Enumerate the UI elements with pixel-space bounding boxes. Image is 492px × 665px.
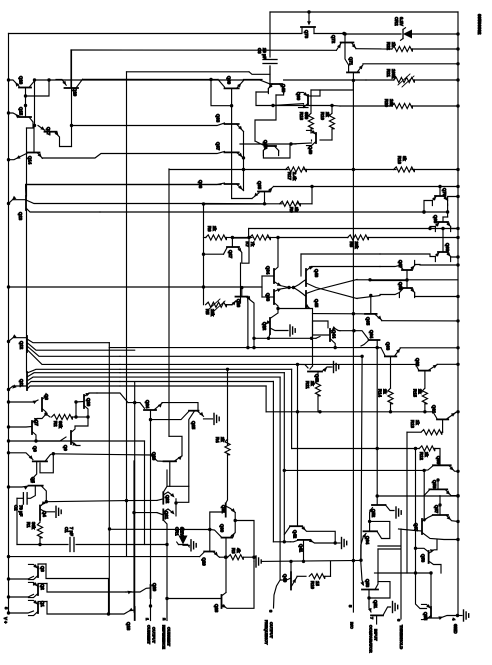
svg-text:Q40: Q40 xyxy=(283,574,288,583)
svg-text:Q29: Q29 xyxy=(202,558,207,567)
wire x108.5 Q3 to y544 xyxy=(108,579,110,615)
svg-text:6.2V: 6.2V xyxy=(399,17,404,26)
transistor Q7 xyxy=(31,421,33,434)
wire x415.5 down to y573 xyxy=(415,449,417,574)
transistor Q64 xyxy=(364,530,378,532)
svg-text:R16: R16 xyxy=(397,156,402,164)
bus row y386 to corner x266.1 xyxy=(120,385,266,387)
wire y80 right of Q48 xyxy=(284,79,366,81)
wire y470.4 base row xyxy=(284,469,424,471)
svg-text:Q30: Q30 xyxy=(220,524,225,533)
svg-text:20k: 20k xyxy=(354,242,359,250)
svg-text:CR2: CR2 xyxy=(394,17,399,26)
wire y529 row xyxy=(108,527,111,530)
resistor R5 10k xyxy=(206,302,227,307)
transistor Q56 xyxy=(433,514,448,516)
transistor Q21 xyxy=(162,509,164,520)
bus row y377.1 to corner x280.1 xyxy=(120,376,280,378)
transistor Q6 xyxy=(33,460,47,462)
transistor Q52 xyxy=(372,504,386,506)
wire Q26 double lines down to bus xyxy=(246,297,254,348)
svg-text:R21: R21 xyxy=(386,69,391,77)
wire y441 bottom row xyxy=(9,440,37,442)
svg-text:R9: R9 xyxy=(289,207,294,213)
svg-text:R20: R20 xyxy=(384,99,389,107)
wire y186.5 to rail xyxy=(274,186,459,188)
svg-text:Q48: Q48 xyxy=(281,84,286,93)
wire y169 left span xyxy=(169,169,244,171)
ground for Q4 xyxy=(55,506,57,517)
svg-text:R13: R13 xyxy=(410,420,415,428)
svg-text:29 pF: 29 pF xyxy=(262,48,267,60)
wire Q63 emitter to rail xyxy=(400,347,458,349)
pin 5 R/C xyxy=(352,170,354,613)
svg-text:Q67: Q67 xyxy=(414,523,419,532)
resistor R17 2.4k xyxy=(244,169,289,171)
svg-text:REFERENCE: REFERENCE xyxy=(162,625,167,649)
bus row y369.3 to corner x291.6 xyxy=(120,368,292,370)
resistor R14 2k xyxy=(388,388,393,404)
svg-text:Q18: Q18 xyxy=(126,622,131,631)
svg-text:2k: 2k xyxy=(424,452,429,457)
transistor Q67 threshold xyxy=(421,519,423,534)
wire x353.4 Q71-R17 xyxy=(352,80,354,169)
svg-text:Q12: Q12 xyxy=(19,341,24,350)
svg-text:Q31: Q31 xyxy=(221,505,226,514)
wire Q33 Q34 base bracket xyxy=(261,276,263,297)
svg-text:2k: 2k xyxy=(310,381,315,386)
transistor Q69 xyxy=(438,221,448,223)
wire x169 from y169 corner xyxy=(168,169,170,436)
ground for Q41 xyxy=(335,542,340,544)
svg-text:R15: R15 xyxy=(413,389,418,397)
wire y541.8 segment xyxy=(273,541,290,543)
svg-text:Q20: Q20 xyxy=(152,583,157,592)
svg-text:2k: 2k xyxy=(383,389,388,394)
svg-text:R7: R7 xyxy=(245,242,250,248)
latch cross wires xyxy=(357,279,370,281)
transistor Q49 xyxy=(315,133,317,143)
transistor Q8 xyxy=(41,398,43,411)
svg-text:GND: GND xyxy=(453,624,458,634)
svg-text:Q38: Q38 xyxy=(216,114,221,123)
wire y280.5 to Q67k base xyxy=(370,280,407,282)
svg-text:Q37: Q37 xyxy=(216,142,221,151)
transistor Q16 xyxy=(19,87,31,89)
pin 3 FREQUENCY OUTPUT xyxy=(274,580,281,608)
svg-text:Q72: Q72 xyxy=(331,35,336,44)
wire y80 Q16-Q48-Q71 row xyxy=(49,79,260,81)
ground for Q51 xyxy=(392,602,394,613)
svg-text:10k: 10k xyxy=(210,309,215,317)
svg-text:Q22: Q22 xyxy=(165,495,170,504)
transistor Q15 xyxy=(19,116,31,118)
svg-text:Q70: Q70 xyxy=(442,188,447,197)
svg-text:R3: R3 xyxy=(231,548,236,554)
transistor Q32 xyxy=(269,318,271,334)
wire y356.3 end dot xyxy=(120,355,362,357)
latch Q45 xyxy=(305,291,307,308)
wire y12 top rail to right corner xyxy=(270,11,458,13)
latch base feeds xyxy=(287,286,290,289)
transistor Q44 xyxy=(329,329,331,341)
transistor Q39 xyxy=(225,87,239,89)
svg-text:OUTPUT: OUTPUT xyxy=(269,622,274,639)
ground for Q52 xyxy=(395,507,397,518)
svg-text:R6: R6 xyxy=(207,226,212,232)
svg-text:Q10: Q10 xyxy=(86,398,91,407)
wire Q47 base from Q48 xyxy=(255,95,276,141)
pin 6 THRESHOLD xyxy=(400,529,402,619)
resistor R18 650 xyxy=(308,113,313,129)
wire Q19 emitter to Q39 xyxy=(83,78,219,80)
svg-text:Q13: Q13 xyxy=(18,212,23,221)
svg-text:3: 3 xyxy=(269,610,274,613)
svg-text:Q17: Q17 xyxy=(46,127,51,136)
transistor Q62 xyxy=(419,370,430,372)
wire right rail x458 xyxy=(457,12,459,616)
svg-text:Q14: Q14 xyxy=(28,156,33,165)
svg-text:100k: 100k xyxy=(391,69,396,79)
svg-text:C2: C2 xyxy=(14,505,19,511)
wire y338.3 spur xyxy=(254,337,316,339)
svg-text:15: 15 xyxy=(315,581,320,586)
svg-text:R14: R14 xyxy=(378,389,383,397)
transistor Q72 xyxy=(341,42,354,44)
ground for Q25 xyxy=(213,413,215,424)
wire Q71 emitter to rail y63.8 xyxy=(363,63,458,65)
svg-text:4: 4 xyxy=(452,618,457,621)
svg-text:COMPARATOR: COMPARATOR xyxy=(369,625,374,653)
wire top sub-box xyxy=(273,105,332,107)
svg-text:Q42: Q42 xyxy=(293,530,298,539)
wire x203.5 vertical xyxy=(203,204,205,305)
svg-text:INPUT: INPUT xyxy=(374,629,379,641)
wire x126.5 long vertical xyxy=(126,72,128,556)
transistor Q66 xyxy=(402,287,412,289)
wire top y50 from x71 xyxy=(71,49,336,51)
resistor R19 2k xyxy=(329,113,334,129)
transistor Q20 xyxy=(150,585,152,598)
resistor R9 8k xyxy=(265,203,283,205)
wire Q33 collector to comparator x313.5 xyxy=(278,309,313,367)
transistor Q65 xyxy=(428,551,430,563)
transistor Q23 xyxy=(164,460,177,462)
wire rail bottom to gnd xyxy=(457,615,459,617)
svg-text:CR1: CR1 xyxy=(175,527,180,536)
wire x299.6 to y411.5 xyxy=(297,364,299,526)
transistor Q60a mirror xyxy=(307,95,309,105)
svg-text:Q15: Q15 xyxy=(19,107,24,116)
svg-text:Q45: Q45 xyxy=(314,299,319,308)
svg-text:Q46: Q46 xyxy=(314,269,319,278)
wire x150 pin1 stub xyxy=(149,604,152,607)
transistor Q70 xyxy=(435,195,445,197)
wire box bottom y549 xyxy=(378,548,400,550)
transistor Q26 xyxy=(236,296,248,298)
svg-text:30k: 30k xyxy=(31,522,36,530)
wire x144.5 vertical xyxy=(144,441,146,545)
svg-text:Q71: Q71 xyxy=(349,57,354,66)
ground for Q43 xyxy=(330,366,332,368)
transistor Q3 xyxy=(37,567,39,577)
latch Q46 xyxy=(305,269,307,286)
transistor Q1 xyxy=(37,603,39,613)
svg-text:2k: 2k xyxy=(212,226,217,231)
transistor Q53 xyxy=(362,589,378,591)
wire x134 long xyxy=(133,461,135,612)
resistor R4 2k xyxy=(225,439,230,455)
transistor Q40 xyxy=(290,572,292,589)
svg-text:Q24: Q24 xyxy=(145,400,150,409)
svg-text:Q65: Q65 xyxy=(366,317,371,326)
wire y79.5 continues to Q48 xyxy=(244,78,263,80)
resistor R3 4k xyxy=(220,556,226,558)
zener CR1 6.2V xyxy=(181,528,184,531)
svg-text:CURRENT: CURRENT xyxy=(167,627,172,647)
resistor R12 2k xyxy=(292,448,419,450)
wire y203.5 to R9 and Q35 xyxy=(204,203,267,205)
svg-text:Q67: Q67 xyxy=(398,260,403,269)
transistor Q13 multi-emitter xyxy=(25,196,27,210)
svg-text:1k: 1k xyxy=(415,420,420,425)
transistor Q67k xyxy=(402,269,412,271)
svg-text:OUTPUT: OUTPUT xyxy=(152,627,157,644)
svg-text:V +: V + xyxy=(3,617,8,624)
svg-text:Q34: Q34 xyxy=(266,266,271,275)
svg-text:2.4k: 2.4k xyxy=(292,172,297,181)
wire Q30 Q31 junction right xyxy=(235,521,254,558)
wire Q5 emitter to Q22 base y500.5 xyxy=(46,501,126,502)
capacitor C3 29pF xyxy=(269,12,271,57)
svg-text:1: 1 xyxy=(145,618,150,621)
svg-text:Q19: Q19 xyxy=(73,88,78,97)
wire Q62 emitter to rail xyxy=(437,363,458,365)
wire y228.5 long xyxy=(249,228,458,230)
transistor Q28b bottom xyxy=(221,595,223,608)
svg-text:10k: 10k xyxy=(389,99,394,107)
svg-text:Q9: Q9 xyxy=(63,445,68,451)
svg-text:650: 650 xyxy=(304,112,309,120)
transistor Q10 xyxy=(83,395,85,408)
transistor Q29 xyxy=(204,551,214,553)
resistor R6 2k xyxy=(204,237,207,239)
svg-text:Q5: Q5 xyxy=(31,477,36,483)
transistor Q2 xyxy=(37,585,39,595)
svg-text:Q6: Q6 xyxy=(33,446,38,452)
ground for CR1 xyxy=(190,540,192,551)
svg-text:Q73: Q73 xyxy=(304,30,309,39)
svg-text:6: 6 xyxy=(397,619,402,622)
wire x407 long vertical xyxy=(406,432,408,573)
svg-text:R2: R2 xyxy=(53,421,58,427)
svg-text:Q21: Q21 xyxy=(164,511,169,520)
transistor Q63 xyxy=(385,355,396,357)
svg-text:7 pF: 7 pF xyxy=(69,527,74,536)
bus row y372.7 to corner x284.3 xyxy=(120,372,284,374)
wire x26.5 from Q13 to Q11 xyxy=(26,210,28,372)
svg-text:Q53: Q53 xyxy=(365,579,370,588)
svg-text:C3: C3 xyxy=(257,48,262,54)
transistor Q47 xyxy=(266,145,276,147)
svg-text:5: 5 xyxy=(348,605,353,608)
svg-text:Q16: Q16 xyxy=(19,76,24,85)
svg-text:R12: R12 xyxy=(419,452,424,460)
resistor R20 10k xyxy=(340,105,392,107)
wire Q44 base box xyxy=(313,321,331,335)
svg-text:Q57: Q57 xyxy=(434,505,439,514)
transistor Q4 xyxy=(39,506,41,520)
wire y185 Q13 to Q36 xyxy=(26,185,221,197)
wire x360.8 long xyxy=(361,356,362,560)
capacitor C1 7pF xyxy=(17,544,68,546)
svg-text:R1: R1 xyxy=(26,522,31,528)
svg-text:Q23: Q23 xyxy=(152,452,157,461)
svg-text:Q62: Q62 xyxy=(415,358,420,367)
wire Q70 collector x447 down xyxy=(447,204,449,217)
transistor Q12 multi-emitter xyxy=(26,336,28,352)
svg-text:THRESHOLD: THRESHOLD xyxy=(399,625,404,649)
svg-text:60k: 60k xyxy=(58,421,63,429)
svg-text:Q4: Q4 xyxy=(42,511,47,517)
wire y347.6 row L_A xyxy=(109,347,381,349)
svg-text:Q64: Q64 xyxy=(365,536,370,545)
transistor Q65 xyxy=(365,313,377,315)
svg-text:7: 7 xyxy=(370,617,375,620)
transistor Q42 xyxy=(290,525,302,527)
svg-text:Q60: Q60 xyxy=(296,92,301,101)
svg-text:Q56: Q56 xyxy=(421,554,426,563)
svg-text:Q27: Q27 xyxy=(228,250,233,259)
svg-text:R11: R11 xyxy=(305,381,310,389)
transistor Q48 xyxy=(270,83,282,85)
svg-text:Q8: Q8 xyxy=(44,394,49,400)
transistor Q9 xyxy=(70,431,72,444)
wire x150.5 long vertical xyxy=(150,420,152,585)
transistor Q66 lower xyxy=(369,339,380,341)
wire y144 left entry xyxy=(240,143,291,145)
svg-text:Q28: Q28 xyxy=(214,604,219,613)
wire x378 Q52-col to y573 xyxy=(377,549,379,573)
svg-text:FREQUENCY: FREQUENCY xyxy=(264,620,269,645)
wire x167 pin2 stub xyxy=(166,545,168,599)
svg-text:00566602: 00566602 xyxy=(477,14,482,35)
svg-text:Q41: Q41 xyxy=(299,544,304,553)
wire Q10 emitter to Q24 xyxy=(97,393,128,403)
resistor R8 20k xyxy=(278,237,348,239)
transistor Q27 xyxy=(227,246,239,248)
svg-text:Q44: Q44 xyxy=(332,330,337,339)
wire x424.2 down to Q67 xyxy=(423,470,425,519)
svg-text:C1: C1 xyxy=(64,527,69,533)
resistor R22 1k xyxy=(356,48,392,50)
resistor R21 100k xyxy=(366,79,394,81)
wire y556.5 bottom row xyxy=(9,556,200,558)
svg-text:Q58: Q58 xyxy=(432,480,437,489)
wire y364.4 bus row L_D xyxy=(120,363,416,365)
transistor Q17 xyxy=(45,131,57,133)
resistor R1 30k xyxy=(39,520,41,522)
wire y573 left part xyxy=(375,572,379,574)
resistor R7 7k xyxy=(249,237,252,239)
transistor Q33 xyxy=(273,290,275,304)
svg-text:2k: 2k xyxy=(325,112,330,117)
transistor Q36 xyxy=(225,183,239,185)
transistor Q68 xyxy=(438,251,448,253)
capacitor C2 70pF xyxy=(22,493,24,504)
transistor Q19 xyxy=(65,87,79,89)
wire Q27 emitter down x240.5 xyxy=(240,263,242,303)
transistor Q55 xyxy=(430,607,432,617)
resistor R15 2k xyxy=(422,388,427,404)
svg-text:Q3: Q3 xyxy=(40,566,45,572)
transistor Q31 xyxy=(225,503,227,516)
svg-text:Q49: Q49 xyxy=(308,146,313,155)
transistor Q60 xyxy=(433,464,451,466)
svg-text:Q35: Q35 xyxy=(257,181,262,190)
svg-text:Q55: Q55 xyxy=(423,612,428,621)
svg-text:R4: R4 xyxy=(215,437,220,443)
svg-text:Q2: Q2 xyxy=(40,584,45,590)
transistor Q30 xyxy=(222,537,233,539)
transistor Q35 xyxy=(258,191,270,193)
wire y512.6 Q21 base xyxy=(132,511,135,514)
resistor R2 60k xyxy=(46,414,50,417)
svg-text:Q52: Q52 xyxy=(371,509,376,518)
wire y562 ground row xyxy=(255,556,257,567)
transistor Q51 xyxy=(371,614,383,616)
svg-text:8k: 8k xyxy=(294,207,299,212)
svg-text:Q7: Q7 xyxy=(34,420,39,426)
svg-text:R10: R10 xyxy=(310,581,315,589)
svg-text:Q26: Q26 xyxy=(236,299,241,308)
resistor R10 15 xyxy=(297,575,306,577)
svg-text:2k: 2k xyxy=(220,437,225,442)
resistor R11 2k xyxy=(315,380,320,396)
transistor Q43 xyxy=(308,371,322,373)
wire GND pin xyxy=(456,614,459,617)
svg-text:Q32: Q32 xyxy=(262,322,267,331)
transistor Q22 xyxy=(162,492,164,503)
svg-text:R/C: R/C xyxy=(350,622,355,629)
transistor Q58 xyxy=(429,488,447,490)
wire V+ top-left corner run xyxy=(8,34,10,614)
svg-text:Q66: Q66 xyxy=(398,282,403,291)
svg-text:Q11: Q11 xyxy=(19,379,24,387)
svg-text:Q63: Q63 xyxy=(386,342,391,351)
transistor Q41 xyxy=(298,539,310,541)
transistor Q18 xyxy=(134,607,136,620)
transistor Q38 xyxy=(225,123,239,125)
svg-text:1k: 1k xyxy=(391,42,396,47)
svg-text:Q60: Q60 xyxy=(436,456,441,465)
wire x134.7 long vertical xyxy=(134,382,136,607)
wire Q48 region xyxy=(256,92,273,106)
svg-text:8k: 8k xyxy=(402,156,407,161)
bus row y381.5 to corner x273.4 xyxy=(120,381,273,383)
transistor Q24 xyxy=(144,409,156,411)
wire y544.5 to x167 xyxy=(127,544,168,546)
svg-text:Q69: Q69 xyxy=(433,215,438,224)
resistor R13 1k xyxy=(421,430,442,435)
svg-text:R22: R22 xyxy=(386,42,391,50)
svg-text:4k: 4k xyxy=(236,548,241,553)
transistor Q11 multi-emitter xyxy=(26,372,28,390)
wire x249 from y238 xyxy=(233,237,249,239)
wire y573 row xyxy=(378,572,431,574)
wire x109.5 long vertical xyxy=(108,343,110,614)
svg-text:70 pF: 70 pF xyxy=(19,505,24,517)
